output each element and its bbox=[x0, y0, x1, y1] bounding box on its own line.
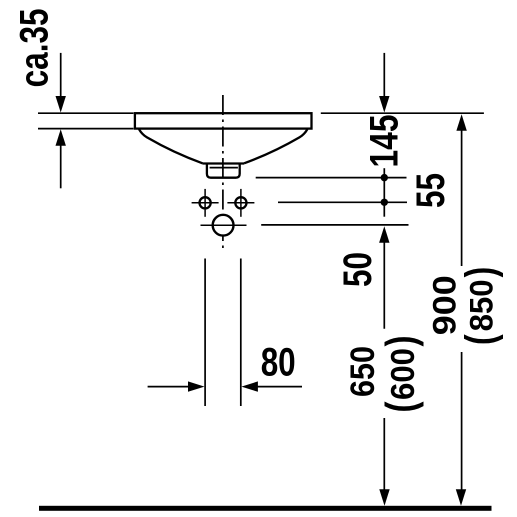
vertical centerline (dash-dot) bbox=[222, 95, 224, 249]
900 dimension lower stem with down arrow to floor bbox=[456, 352, 466, 506]
svg-text:ca.35: ca.35 bbox=[13, 8, 57, 87]
label (600) bbox=[377, 336, 424, 413]
basin bowl left curve bbox=[139, 129, 203, 163]
ca.35 dimension arrow below (pointing up) bbox=[56, 129, 66, 188]
countertop bottom surface line (left of basin) bbox=[38, 128, 134, 130]
svg-text:650: 650 bbox=[344, 346, 382, 397]
svg-text:(: ( bbox=[456, 334, 503, 345]
basin bowl right curve bbox=[244, 129, 307, 163]
svg-text:): ) bbox=[377, 336, 424, 347]
svg-text:600: 600 bbox=[384, 348, 421, 400]
countertop top surface line (left of basin) bbox=[38, 112, 134, 114]
label (850) bbox=[456, 267, 503, 345]
900 dimension up arrow (pointing up to top line) bbox=[456, 114, 466, 266]
left faucet hole bbox=[192, 189, 219, 217]
dimension dot at 145/55 bbox=[381, 174, 388, 181]
reference line at drain bottom level (145) bbox=[256, 177, 407, 179]
80 dimension right arrow (pointing left) bbox=[241, 381, 302, 391]
50/650 up arrow (pointing up to tap line) bbox=[379, 226, 389, 329]
dimension dot at 55/50 bbox=[381, 199, 388, 206]
drain inner line bbox=[210, 167, 238, 169]
drain pipe right wall bbox=[240, 259, 242, 407]
145 dimension arrow (pointing down to top line) bbox=[379, 53, 389, 113]
svg-text:80: 80 bbox=[261, 341, 296, 385]
svg-text:(: ( bbox=[377, 401, 424, 412]
right faucet hole bbox=[227, 189, 254, 217]
drain top line bbox=[202, 162, 244, 164]
svg-text:50: 50 bbox=[336, 252, 380, 287]
svg-text:900: 900 bbox=[427, 275, 463, 335]
center tap hole (large) bbox=[201, 215, 247, 236]
svg-text:850: 850 bbox=[464, 279, 500, 331]
drain body bbox=[207, 164, 240, 178]
reference line at tap hole level (50) bbox=[261, 224, 408, 226]
floor line bbox=[39, 506, 492, 511]
dimension stem through dots bbox=[383, 168, 385, 217]
top reference line right of basin (900 datum) bbox=[321, 112, 484, 114]
80 dimension left arrow (pointing right) bbox=[148, 381, 205, 391]
svg-text:145: 145 bbox=[362, 115, 406, 168]
svg-text:55: 55 bbox=[409, 173, 453, 208]
svg-text:): ) bbox=[456, 267, 503, 278]
ca.35 dimension arrow above (pointing down) bbox=[56, 53, 66, 113]
drain pipe left wall bbox=[204, 259, 206, 407]
basin rim (section rectangle) bbox=[135, 113, 312, 128]
650 dimension lower stem with down arrow to floor bbox=[379, 418, 389, 506]
reference line at faucet hole level (55) bbox=[278, 201, 407, 203]
